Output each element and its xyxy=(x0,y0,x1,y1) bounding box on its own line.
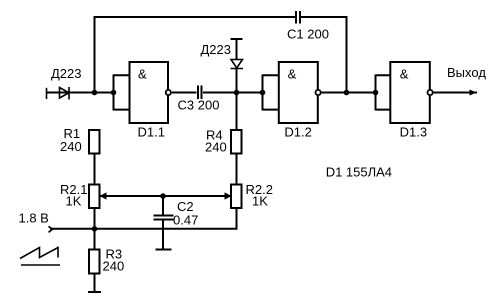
capacitor C3 xyxy=(198,86,202,100)
diode VD2 Д223 (top, pointing down) xyxy=(231,60,244,69)
svg-text:C3 200: C3 200 xyxy=(178,98,220,113)
svg-text:&: & xyxy=(138,66,147,81)
node junction dot diode/R4 column xyxy=(234,90,240,96)
svg-text:D1 155ЛА4: D1 155ЛА4 xyxy=(326,164,392,179)
node junction dot left column on main line xyxy=(92,90,98,96)
wire R3 to ground terminal xyxy=(94,274,96,292)
NAND gate D1.2 body xyxy=(279,62,318,123)
arrowhead wiper left at R2.1 xyxy=(100,192,107,199)
NAND gate D1.3 body xyxy=(390,62,430,123)
wire R2.1 bottom to rail and R3 xyxy=(94,207,96,250)
resistor R2.1 (potentiometer section) xyxy=(89,185,100,209)
diode VD1 Д223 (left) xyxy=(60,87,70,100)
wire diode VD2 to main line and R4 xyxy=(236,69,238,130)
sawtooth waveform symbol xyxy=(20,248,58,259)
svg-text:1.8 В: 1.8 В xyxy=(19,210,49,225)
svg-text:Д223: Д223 xyxy=(201,42,232,57)
svg-text:1K: 1K xyxy=(252,194,268,209)
capacitor C2 xyxy=(154,216,174,220)
wire D1.3 output to arrow xyxy=(434,92,477,94)
svg-text:D1.3: D1.3 xyxy=(400,124,427,139)
svg-text:Д223: Д223 xyxy=(51,66,82,81)
wire D1.2 output to D1.3 input xyxy=(322,92,376,94)
svg-text:&: & xyxy=(288,66,297,81)
resistor R2.2 (potentiometer section) xyxy=(231,185,242,209)
wire input terminal tick left xyxy=(46,88,48,99)
terminal bar below C2 xyxy=(156,249,172,251)
node junction dot bottom rail left column xyxy=(92,226,98,232)
gate D1.2 output bubble xyxy=(316,90,321,95)
wire D1.3 input bracket xyxy=(376,75,391,111)
wire top rail left segment xyxy=(95,16,296,18)
wire D1.1 input bracket xyxy=(114,75,130,111)
gate D1.3 output bubble xyxy=(428,90,433,95)
node junction dot C2 tap xyxy=(160,193,166,199)
wire D1.2 input bracket xyxy=(263,75,279,111)
arrowhead output xyxy=(470,90,477,96)
wiper line between R2.1 and R2.2 xyxy=(101,195,231,197)
svg-text:240: 240 xyxy=(103,259,125,274)
input terminal chevron 1.8 B xyxy=(49,226,53,232)
wire C2 bottom lead xyxy=(162,221,164,250)
arrowhead wiper right at R2.2 xyxy=(225,192,232,199)
wire vertical from top rail to main line (left) xyxy=(94,16,96,93)
wire D1.1 output to C3 xyxy=(172,92,197,94)
svg-text:D1.2: D1.2 xyxy=(284,124,311,139)
svg-text:C1 200: C1 200 xyxy=(287,26,329,41)
wire top rail right segment xyxy=(301,16,347,18)
gate D1.1 output bubble xyxy=(166,90,171,95)
node junction dot D1.2 input tie xyxy=(260,90,266,96)
svg-text:240: 240 xyxy=(60,139,82,154)
wire bottom rail 1.8V xyxy=(50,228,238,230)
terminal bar above diode VD2 xyxy=(231,38,243,40)
wire main line from input to D1.1 xyxy=(47,92,114,94)
svg-text:0.47: 0.47 xyxy=(173,213,198,228)
wire R1 to R2.1 xyxy=(94,155,96,186)
wire C3 to D1.2 input xyxy=(203,92,263,94)
sawtooth baseline xyxy=(21,264,60,266)
resistor R3 xyxy=(89,250,100,274)
svg-text:D1.1: D1.1 xyxy=(138,124,165,139)
wire C2 top lead xyxy=(162,196,164,215)
svg-text:Выход: Выход xyxy=(447,65,486,80)
svg-text:240: 240 xyxy=(205,140,227,155)
terminal bar below R3 xyxy=(88,291,101,293)
wire vertical from top rail to D1.2 output node xyxy=(346,16,348,93)
NAND gate D1.1 body xyxy=(130,62,169,123)
svg-text:1K: 1K xyxy=(66,194,82,209)
node junction dot C1 return xyxy=(344,90,350,96)
wire R2.2 bottom to rail xyxy=(236,207,238,229)
node junction dot D1.1 input tie xyxy=(111,90,117,96)
wire terminal to diode VD2 xyxy=(236,39,238,60)
resistor R4 xyxy=(231,130,242,154)
wire R4 to R2.2 xyxy=(236,155,238,186)
node junction dot D1.3 input tie xyxy=(373,90,379,96)
resistor R1 xyxy=(89,130,100,154)
capacitor C1 xyxy=(296,11,300,24)
svg-text:&: & xyxy=(400,66,409,81)
